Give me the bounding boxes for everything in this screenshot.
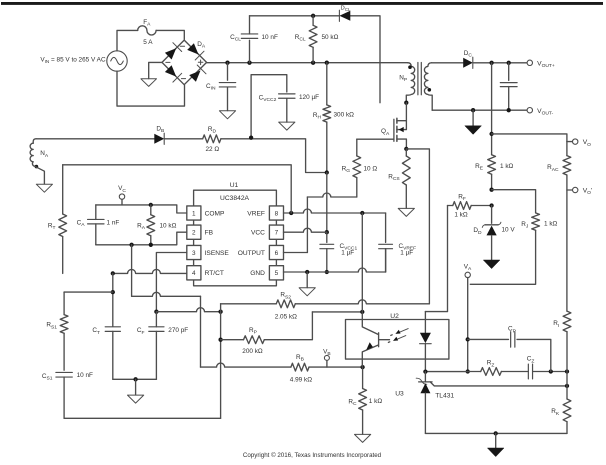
resistor RI xyxy=(563,311,571,332)
terminal VOUT- xyxy=(527,108,532,113)
wire CT CF ground rail xyxy=(113,378,157,380)
wire RS2 column xyxy=(220,304,222,419)
wire timing gnd stub xyxy=(135,379,137,395)
wire RZ run xyxy=(468,371,481,373)
junction VA/RZ wire xyxy=(466,369,470,373)
junction bus/CIN xyxy=(225,61,229,65)
opto phototransistor xyxy=(362,312,389,367)
svg-text:1 kΩ: 1 kΩ xyxy=(500,163,514,170)
wire fuse to bridge top xyxy=(156,30,184,39)
capacitor CVCC1 xyxy=(326,232,328,242)
junction CP drop xyxy=(549,369,553,373)
svg-text:4.99 kΩ: 4.99 kΩ xyxy=(290,377,312,384)
capacitor CS1 xyxy=(56,372,72,377)
TL431 symbol xyxy=(424,372,426,382)
svg-text:5 A: 5 A xyxy=(143,39,153,46)
capacitor CP xyxy=(511,332,515,347)
phase dot secondary xyxy=(428,88,432,92)
svg-text:U2: U2 xyxy=(390,313,399,320)
resistor RCS xyxy=(405,149,407,156)
junction emitter/RC xyxy=(360,365,364,369)
capacitor CCL xyxy=(241,34,257,38)
capacitor CZ xyxy=(528,364,532,379)
ground at U1 GND xyxy=(299,288,315,296)
wire VREF pin8 xyxy=(284,209,386,213)
wire RS1 top xyxy=(64,291,113,293)
wire RT/CT pin4 xyxy=(113,269,187,273)
U1 pin 8 box xyxy=(269,206,283,220)
svg-text:300 kΩ: 300 kΩ xyxy=(334,112,355,119)
wire DB to RD xyxy=(164,138,202,140)
svg-text:1 kΩ: 1 kΩ xyxy=(369,398,383,405)
ground secondary (filled) xyxy=(465,126,482,135)
junction RD wire/CVCC2 xyxy=(249,136,253,140)
resistor RZ xyxy=(481,368,502,376)
svg-text:120 µF: 120 µF xyxy=(299,94,319,101)
junction bus/CCL xyxy=(247,61,251,65)
terminal VO xyxy=(567,141,573,143)
wire gate from RG xyxy=(357,138,394,140)
resistor RJ xyxy=(532,213,540,230)
capacitor CA xyxy=(95,205,97,220)
wire VOUT- rail xyxy=(432,109,527,111)
transformer secondary winding xyxy=(424,63,432,110)
terminal VOUT+ xyxy=(527,60,532,65)
wire TL431 ref line xyxy=(430,382,567,386)
svg-text:VREF: VREF xyxy=(247,210,265,217)
wire FB bottom xyxy=(96,232,187,245)
U1 pin 3 box xyxy=(187,245,201,259)
wire CP to drop xyxy=(517,339,551,371)
diode DC xyxy=(463,58,473,68)
bridge polarity marks xyxy=(166,46,186,78)
wire GND rail xyxy=(284,268,386,272)
junction FB/RA xyxy=(149,243,153,247)
bridge diode top-right (points to right corner) xyxy=(187,43,198,54)
junction RE/RF xyxy=(489,203,493,207)
ground below CVCC2 xyxy=(279,122,295,130)
capacitor CF xyxy=(155,312,157,327)
ground below CIN xyxy=(219,111,235,119)
resistor RF xyxy=(448,205,453,207)
resistor RAC xyxy=(563,156,571,175)
resistor RH xyxy=(326,63,328,105)
diode DCL xyxy=(339,11,350,21)
capacitor CVCC2 xyxy=(279,94,295,98)
junction VREF/opto riser xyxy=(360,211,364,215)
svg-text:1 kΩ: 1 kΩ xyxy=(544,220,558,227)
svg-text:50 kΩ: 50 kΩ xyxy=(322,34,339,41)
junction RS2 column top xyxy=(218,310,222,314)
junction VA/CP xyxy=(466,337,470,341)
opto LED xyxy=(424,312,426,372)
junction RZ net/RK column xyxy=(565,369,569,373)
svg-text:OUTPUT: OUTPUT xyxy=(238,250,265,257)
resistor RS2 xyxy=(221,303,277,305)
wire COMP top xyxy=(96,205,187,213)
svg-text:2: 2 xyxy=(192,230,196,237)
transformer primary NP winding xyxy=(406,63,414,103)
ground below NA xyxy=(36,184,52,192)
bridge diode bottom-left (points to bottom corner) xyxy=(165,65,176,76)
wire NA to DB xyxy=(36,138,154,140)
wire current sense to RS2 xyxy=(406,149,429,304)
capacitor CT xyxy=(105,327,120,332)
phase dot NP xyxy=(408,65,412,69)
svg-text:3: 3 xyxy=(192,250,196,257)
wire to RAC xyxy=(492,134,567,156)
wire OUTPUT to RG xyxy=(307,193,356,197)
svg-text:FB: FB xyxy=(205,230,214,237)
svg-text:22 Ω: 22 Ω xyxy=(205,146,219,153)
bridge diode bottom-right (points to right corner) xyxy=(189,71,200,82)
junction VREF/RT riser xyxy=(289,211,293,215)
wire OUTPUT pin6 xyxy=(284,252,308,254)
junction CT/RS1 xyxy=(111,290,115,294)
junction ISENSE/CF xyxy=(154,310,158,314)
svg-text:6: 6 xyxy=(275,250,279,257)
junction bus/RH xyxy=(325,61,329,65)
wire bridge left corner to ground xyxy=(149,62,162,78)
svg-text:1 nF: 1 nF xyxy=(107,219,120,226)
U1 pin 7 box xyxy=(269,225,283,239)
junction bottom gnd xyxy=(494,431,498,435)
svg-text:VIN = 85 V to 265 V AC: VIN = 85 V to 265 V AC xyxy=(40,56,106,64)
U2 opto box xyxy=(346,320,449,360)
svg-text:5: 5 xyxy=(275,270,279,277)
junction clamp top/RCL xyxy=(311,14,315,18)
wire opto collector riser xyxy=(361,213,363,312)
svg-text:8: 8 xyxy=(275,210,279,217)
wire NA top corner xyxy=(33,139,36,143)
wire RE to RJ xyxy=(492,190,536,213)
svg-text:U3: U3 xyxy=(395,391,404,398)
wire CVCC2 top loop xyxy=(251,75,287,138)
svg-text:UC3842A: UC3842A xyxy=(220,195,250,202)
wire ISENSE pin3 xyxy=(156,253,186,312)
svg-text:GND: GND xyxy=(250,270,265,277)
resistor RC xyxy=(362,367,364,388)
AC source VIN circle xyxy=(107,51,127,71)
junction timing gnd xyxy=(133,377,137,381)
svg-text:2.05 kΩ: 2.05 kΩ xyxy=(275,313,297,320)
junction VOUT-/cap xyxy=(507,108,511,112)
terminal VC xyxy=(119,194,124,199)
wire NA to ground xyxy=(35,166,45,184)
wire VB stub xyxy=(326,360,328,367)
svg-text:VCC: VCC xyxy=(251,230,265,237)
resistor RA xyxy=(150,205,152,215)
wire RF to LED anode xyxy=(425,206,447,312)
svg-text:1 µF: 1 µF xyxy=(341,250,354,257)
svg-text:10 nF: 10 nF xyxy=(77,372,93,379)
wire RB to opto emitter xyxy=(309,366,363,368)
svg-text:COMP: COMP xyxy=(205,210,225,217)
resistor RCL xyxy=(312,16,314,25)
resistor RT xyxy=(62,165,64,214)
capacitor CIN xyxy=(227,63,229,80)
wire RT riser xyxy=(63,165,292,213)
junction primary/drain xyxy=(404,101,408,105)
mosfet QA symbol xyxy=(393,119,395,141)
U1 chip body xyxy=(194,190,277,286)
wire VOUT+ rail xyxy=(473,62,527,64)
wire TL431 anode bottom xyxy=(425,432,567,434)
wire secondary to DC xyxy=(432,62,464,64)
junction RT/CT node xyxy=(111,271,115,275)
ground bottom (filled) xyxy=(487,448,504,457)
U1 pin 5 box xyxy=(269,266,283,280)
capacitor CVREF xyxy=(379,244,393,248)
inductor NA winding xyxy=(30,143,35,166)
zener DD xyxy=(491,206,493,224)
wire CP run xyxy=(468,338,509,340)
U1 pin 6 box xyxy=(269,245,283,259)
fuse FA symbol xyxy=(138,26,156,35)
junction opto collector node xyxy=(360,310,364,314)
junction FB/feedback riser xyxy=(129,243,133,247)
terminal VO2 xyxy=(567,189,573,191)
wire ISENSE to RS2 node xyxy=(156,308,220,312)
resistor RK xyxy=(563,399,571,422)
junction sense node xyxy=(489,132,493,136)
ground below CT CF xyxy=(128,395,144,403)
resistor RD xyxy=(203,135,221,143)
wire RB run xyxy=(201,363,291,367)
junction COMP/RA xyxy=(149,203,153,207)
ground below RCS xyxy=(398,208,414,216)
svg-text:1 kΩ: 1 kΩ xyxy=(454,212,468,219)
resistor RE xyxy=(488,155,496,174)
wire AC bottom loop xyxy=(117,71,185,106)
transformer core xyxy=(418,63,421,95)
resistor RP xyxy=(221,339,244,341)
junction VCC charge node xyxy=(325,170,329,174)
svg-text:ISENSE: ISENSE xyxy=(205,250,230,257)
junction CVCC1/gnd rail xyxy=(325,270,329,274)
wire FB divider descend xyxy=(131,245,133,296)
svg-text:4: 4 xyxy=(192,270,196,277)
opto light arrows xyxy=(397,329,409,340)
junction VCC pin7 xyxy=(325,230,329,234)
wire VCC pin7 xyxy=(284,228,327,232)
resistor RB xyxy=(291,363,309,371)
wire sec gnd stub xyxy=(472,110,474,126)
terminal VA xyxy=(465,272,470,277)
wire main DC bus xyxy=(207,62,408,64)
svg-text:U1: U1 xyxy=(230,182,239,189)
junction VOUT+/RE xyxy=(489,61,493,65)
U1 pin 4 box xyxy=(187,266,201,280)
junction GND/gnd symbol xyxy=(305,270,309,274)
wire slope comp bottom xyxy=(64,417,221,419)
ground at bridge left xyxy=(141,79,157,87)
ground below RC xyxy=(355,434,371,442)
svg-text:270 pF: 270 pF xyxy=(168,327,188,334)
junction VOUT+/cap xyxy=(507,61,511,65)
wire AC top to fuse to bridge xyxy=(117,30,138,50)
svg-text:Copyright © 2016, Texas Instru: Copyright © 2016, Texas Instruments Inco… xyxy=(243,452,382,459)
svg-text:10 nF: 10 nF xyxy=(262,34,278,41)
phase dot NA xyxy=(35,165,39,169)
wire LED cathode to TL431 xyxy=(425,371,467,373)
svg-text:TL431: TL431 xyxy=(435,393,454,400)
diode DB xyxy=(154,134,164,144)
wire RD to VCC node xyxy=(221,139,327,173)
svg-text:1: 1 xyxy=(192,210,196,217)
terminal VB xyxy=(324,355,329,360)
svg-text:DCL: DCL xyxy=(341,5,351,12)
bridge diode top-left (points to top corner) xyxy=(165,48,176,59)
junction ref/RK column xyxy=(565,384,569,388)
wire CCL riser xyxy=(249,40,251,62)
resistor RS1 xyxy=(63,292,65,315)
U1 pin 2 box xyxy=(187,225,201,239)
junction RE/RJ xyxy=(489,188,493,192)
svg-text:10 V: 10 V xyxy=(502,227,516,234)
wire VOUT+ sense drop xyxy=(491,63,493,155)
wire clamp top xyxy=(250,16,381,103)
wire RZ to CZ xyxy=(501,371,528,373)
U1 pin 1 box xyxy=(187,206,201,220)
capacitor Cout xyxy=(508,63,510,81)
svg-text:10 Ω: 10 Ω xyxy=(364,165,378,172)
svg-text:200 kΩ: 200 kΩ xyxy=(242,348,263,355)
svg-text:7: 7 xyxy=(275,230,279,237)
wire VREF to CVREF xyxy=(385,213,387,242)
ground below DD (filled) xyxy=(483,260,500,269)
svg-text:1 µF: 1 µF xyxy=(400,250,413,257)
wire RP to opto collector xyxy=(312,311,362,313)
junction source/RCS xyxy=(404,147,408,151)
svg-text:RT/CT: RT/CT xyxy=(205,270,224,277)
bridge DA diamond outline xyxy=(162,40,207,85)
junction LED/TL431 xyxy=(423,369,427,373)
junction bus/RCL xyxy=(311,61,315,65)
wire VA vertical xyxy=(467,278,469,372)
wire VC stub xyxy=(121,199,123,205)
wire CZ to column xyxy=(533,371,567,373)
junction VOUT-/gnd xyxy=(471,108,475,112)
junction RP node xyxy=(218,338,222,342)
svg-text:10 kΩ: 10 kΩ xyxy=(160,222,177,229)
wire bottom gnd stub xyxy=(495,433,497,448)
wire VCC vertical xyxy=(326,173,328,233)
wire RT/CT to CT xyxy=(112,273,114,326)
top rule bar xyxy=(1,2,603,5)
wire gnd stub xyxy=(306,272,308,288)
resistor RG xyxy=(356,139,358,156)
